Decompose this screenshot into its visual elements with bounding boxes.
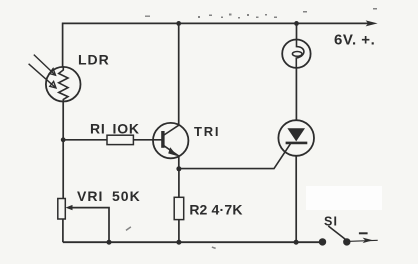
LDR zigzag resistor element — [59, 67, 68, 102]
switch S1 contact dot left — [319, 238, 326, 245]
SCR cathode bar — [286, 142, 308, 145]
wire left rail upper — [62, 23, 64, 67]
svg-text:R2: R2 — [189, 202, 207, 218]
svg-text:IOK: IOK — [113, 121, 140, 137]
lamp filament curl — [296, 40, 304, 68]
wire lamp to SCR — [295, 68, 297, 121]
LDR light arrow 1 — [34, 55, 56, 76]
wire top supply rail — [62, 22, 369, 24]
wire VR1 wiper to bottom rail — [72, 208, 109, 243]
svg-text:6V. +.: 6V. +. — [334, 32, 375, 49]
node VR1 bottom junction — [107, 240, 112, 245]
resistor R1 box — [107, 135, 133, 144]
supply arrowhead + — [366, 20, 378, 26]
wire SCR cathode down — [295, 156, 297, 242]
svg-text:SI: SI — [324, 215, 338, 229]
transistor TR1 collector stroke — [164, 125, 179, 135]
wire R2 bottom lead — [178, 220, 180, 243]
resistor R2 box — [174, 197, 184, 219]
node top lamp junction — [294, 21, 299, 26]
node top collector junction — [176, 21, 181, 26]
switch S1 lever — [328, 226, 345, 239]
potentiometer VR1 box — [58, 199, 66, 220]
node SCR cathode junction — [294, 240, 299, 245]
VR1 wiper arrow — [66, 205, 73, 210]
svg-text:TRI: TRI — [194, 124, 220, 139]
wire left rail lower — [62, 219, 64, 242]
wire left rail middle — [62, 102, 64, 199]
SCR anode triangle — [287, 128, 305, 141]
wire to battery minus with arrowhead — [347, 240, 378, 241]
svg-text:50K: 50K — [112, 188, 141, 204]
svg-text:4·7K: 4·7K — [212, 202, 243, 218]
wire lamp top lead — [296, 23, 298, 40]
switch S1 contact dot right — [343, 238, 350, 245]
wire R1 left lead — [63, 139, 107, 141]
wire R1 right lead to base — [133, 139, 161, 141]
wire emitter down — [178, 156, 180, 169]
wire collector to top rail — [178, 23, 180, 125]
wire emitter to R2 — [178, 169, 180, 198]
transistor TR1 base bar — [161, 131, 164, 148]
SCR circle — [278, 120, 314, 156]
svg-text:RI: RI — [90, 121, 106, 137]
label minus — [359, 232, 368, 234]
svg-text:LDR: LDR — [78, 52, 110, 68]
wire bottom rail — [63, 241, 323, 243]
wire gate from emitter node to SCR — [179, 144, 291, 169]
node R1 left junction — [61, 137, 66, 142]
node R2 bottom junction — [176, 240, 181, 245]
svg-text:VRI: VRI — [77, 188, 103, 204]
node emitter junction — [176, 166, 181, 171]
transistor TR1 circle — [153, 123, 188, 158]
LDR light arrow 2 — [29, 64, 56, 88]
lamp circle — [282, 40, 310, 68]
transistor TR1 emitter stroke with arrow — [164, 146, 179, 156]
LDR circle — [46, 67, 81, 102]
